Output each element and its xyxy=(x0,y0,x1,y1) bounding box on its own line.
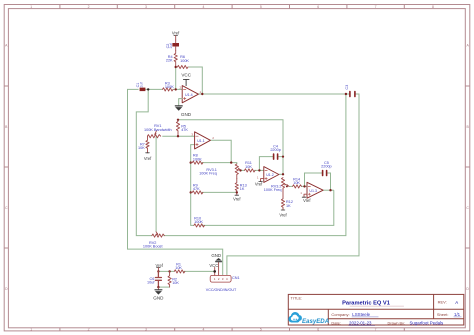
junction C4 right / band vertical xyxy=(282,156,284,158)
junction U1.1 out / R8 row xyxy=(230,161,232,163)
Vref below R12 xyxy=(279,210,287,218)
svg-text:U1.2: U1.2 xyxy=(266,173,274,177)
wire: U1.3 feedback loop up through C5 xyxy=(305,173,331,190)
potentiometer RV3.2 xyxy=(264,178,289,193)
svg-text:A: A xyxy=(455,300,458,305)
svg-text:U1.3: U1.3 xyxy=(309,189,317,193)
svg-text:1: 1 xyxy=(30,328,32,332)
resistor R10 xyxy=(194,216,205,227)
svg-text:22K: 22K xyxy=(166,59,173,63)
svg-text:100K Freq: 100K Freq xyxy=(199,172,217,176)
junction R11 right / U1.2 minus xyxy=(258,169,260,171)
resistor R11 xyxy=(245,161,256,172)
junction R4/R6 node xyxy=(175,66,177,68)
capacitor C6 xyxy=(147,271,161,287)
wire: junction after C1 jog down to RV2 left xyxy=(136,89,152,235)
wire: RV1 wiper down to RV2 wiper xyxy=(155,137,157,232)
svg-text:4: 4 xyxy=(202,328,204,332)
resistor R4 xyxy=(166,51,177,68)
potentiometer RV3.1 xyxy=(199,164,242,179)
svg-text:LSSteele: LSSteele xyxy=(352,312,370,317)
capacitor C5 xyxy=(321,161,332,176)
resistor R7 xyxy=(138,136,149,153)
op-amp U1.2 xyxy=(257,167,279,183)
wire: C1 to R3 to U1.4 pin2 xyxy=(145,88,182,90)
svg-text:100K Freq: 100K Freq xyxy=(264,188,282,192)
svg-text:47K: 47K xyxy=(193,187,200,191)
WIRES (green) xyxy=(128,67,360,287)
svg-text:Vref: Vref xyxy=(156,263,164,268)
ground at CN1 pin2 xyxy=(211,253,222,262)
wire: U1.3 out right xyxy=(323,189,334,191)
svg-text:100K: 100K xyxy=(193,157,202,161)
svg-text:Drawn By:: Drawn By: xyxy=(388,321,406,325)
wire: R2 bottom to C6 bottom GND node xyxy=(158,286,169,288)
svg-text:Sugarfoot Pedals: Sugarfoot Pedals xyxy=(410,321,444,326)
svg-text:REV:: REV: xyxy=(438,300,447,305)
resistor R5 xyxy=(176,120,188,136)
svg-text:10K: 10K xyxy=(293,181,300,185)
svg-text:VCC: VCC xyxy=(209,263,218,268)
Vref net label top xyxy=(172,31,180,40)
junction after C1 xyxy=(147,88,149,90)
resistor R9 xyxy=(190,183,203,194)
svg-text:1: 1 xyxy=(30,5,32,9)
svg-text:5: 5 xyxy=(260,5,262,9)
svg-text:7: 7 xyxy=(375,5,377,9)
wire: C3 right lead down the right side to CN1 pin4 (OUT) xyxy=(227,94,359,275)
wire: U1.2 out to RV3.2 top xyxy=(279,173,283,175)
TITLE BLOCK xyxy=(288,294,464,325)
svg-text:C3: C3 xyxy=(345,85,349,90)
svg-text:Vref: Vref xyxy=(303,198,311,203)
junction R4 to pin2 wire xyxy=(175,88,177,90)
wire: band node row R5 top to U1.2 out vertical xyxy=(178,120,283,175)
svg-text:10K: 10K xyxy=(175,266,182,270)
svg-text:GND: GND xyxy=(211,253,221,258)
svg-text:1/1: 1/1 xyxy=(454,312,461,317)
capacitor C3 xyxy=(345,85,355,97)
wire: Vref divider row R1 to CN1 pin1 xyxy=(158,270,214,272)
ground at U1.4 plus input xyxy=(175,99,192,118)
svg-text:100K Bandwidth: 100K Bandwidth xyxy=(144,128,172,132)
junction U1.4 output / R6 feedback xyxy=(201,93,203,95)
op-amp U1.1 xyxy=(191,132,214,149)
wire: R11 right to U1.2 minus junction xyxy=(254,169,264,171)
Vref below R13 xyxy=(233,195,241,201)
svg-text:10K: 10K xyxy=(172,281,179,285)
resistor R13 xyxy=(235,179,247,196)
connector CN1 xyxy=(206,262,240,292)
EasyEDA logo xyxy=(288,312,329,325)
resistor R2 xyxy=(168,271,179,287)
svg-text:100K: 100K xyxy=(194,220,203,224)
junction R9/R13 node xyxy=(236,191,238,193)
svg-text:7: 7 xyxy=(375,328,377,332)
svg-text:5: 5 xyxy=(260,328,262,332)
capacitor C4 xyxy=(270,144,281,159)
VCC symbol at U1.4 xyxy=(181,73,191,86)
junction C6 bottom / R2 xyxy=(157,286,159,288)
svg-text:U1.1: U1.1 xyxy=(197,139,205,143)
capacitor C1 xyxy=(136,81,145,91)
svg-text:10K: 10K xyxy=(138,146,145,150)
Vref at U1.3 plus input xyxy=(302,194,311,203)
svg-text:VCC: VCC xyxy=(181,73,191,78)
junction output row / C3 left xyxy=(345,93,347,95)
wire: RV1 right to R5 bottom to U1.1 minus xyxy=(162,135,194,137)
wire: U1.4 out down to RV2 right xyxy=(163,94,346,236)
resistor R1 xyxy=(174,262,185,273)
svg-text:10K: 10K xyxy=(245,165,252,169)
wire: input net from CN1 pin3 up left side to C1 xyxy=(128,89,223,275)
svg-text:EasyEDA: EasyEDA xyxy=(302,318,329,325)
Vref at divider xyxy=(156,263,164,273)
svg-text:8: 8 xyxy=(432,5,434,9)
svg-text:1K: 1K xyxy=(286,204,291,208)
svg-text:6: 6 xyxy=(317,328,319,332)
potentiometer RV2 xyxy=(143,232,165,249)
wire: U1.1 output right and down to R8 row xyxy=(210,140,231,162)
wire: R8 right to RV3.1 top xyxy=(202,163,237,164)
ground below C6 xyxy=(153,287,164,300)
svg-text:Company:: Company: xyxy=(331,312,349,317)
svg-text:U1.4: U1.4 xyxy=(185,93,193,97)
svg-text:Vref: Vref xyxy=(172,31,180,36)
wire: RV3.2 wiper to R14 xyxy=(289,185,293,187)
wire: RV3.1 wiper to R11 left xyxy=(241,169,245,171)
wire: R14 right to U1.3 minus xyxy=(301,185,307,187)
svg-text:47K: 47K xyxy=(181,128,188,132)
wire: R9 right to R13 bottom node xyxy=(202,191,237,193)
svg-text:2: 2 xyxy=(88,5,90,9)
resistor R3 xyxy=(163,82,175,92)
svg-text:3: 3 xyxy=(145,328,147,332)
resistor R14 xyxy=(293,177,302,188)
potentiometer RV1 xyxy=(144,124,172,138)
svg-text:100K Boost: 100K Boost xyxy=(143,245,164,249)
junction U1.3 out xyxy=(329,189,331,191)
wire: R6 right to U1.4 output (feedback) xyxy=(189,67,203,94)
svg-text:CN1: CN1 xyxy=(232,276,240,280)
resistor R6 xyxy=(177,55,189,69)
svg-text:Date:: Date: xyxy=(331,321,341,326)
junction R2 top xyxy=(168,270,170,272)
junction R5 bottom xyxy=(177,135,179,137)
svg-text:Vref: Vref xyxy=(144,156,152,161)
svg-text:4: 4 xyxy=(202,5,204,9)
svg-text:2022-01-23: 2022-01-23 xyxy=(349,321,372,326)
svg-text:Parametric EQ V1: Parametric EQ V1 xyxy=(342,301,390,307)
resistor R8 xyxy=(190,154,203,165)
op-amp U1.3 xyxy=(300,182,323,198)
svg-text:10uf: 10uf xyxy=(147,281,155,285)
svg-text:Sheet:: Sheet: xyxy=(437,312,449,317)
junction U1.2 out xyxy=(282,173,284,175)
svg-text:3: 3 xyxy=(145,5,147,9)
svg-text:2200p: 2200p xyxy=(270,148,281,152)
svg-text:100K: 100K xyxy=(180,59,189,63)
op-amp U1.4 xyxy=(180,86,202,103)
svg-text:6: 6 xyxy=(317,5,319,9)
wire: U1.4 output row to C3 xyxy=(198,93,350,95)
VCC net label at CN1 pin1 xyxy=(209,263,218,273)
wire: U1.3 out down to R10 row xyxy=(202,190,334,225)
Vref below R7 xyxy=(144,153,152,161)
wire: U1.1 plus down through R8 R9 to R10 xyxy=(191,145,195,226)
svg-text:TITLE:: TITLE: xyxy=(291,296,303,301)
junction band row R5 xyxy=(177,119,179,121)
Vref at U1.2 plus input xyxy=(255,179,264,187)
svg-text:Vref: Vref xyxy=(233,196,241,201)
wire: R4 node down to pin2 wire xyxy=(175,67,177,89)
wire: U1.2 feedback loop up through C4 xyxy=(259,157,283,171)
svg-text:1K: 1K xyxy=(240,187,245,191)
svg-text:Vref: Vref xyxy=(279,213,287,218)
svg-text:100K: 100K xyxy=(165,85,174,89)
capacitor C2 xyxy=(166,40,179,51)
junction R14 / C5 loop xyxy=(303,185,305,187)
svg-text:VCC/GND/IN/OUT: VCC/GND/IN/OUT xyxy=(206,288,237,292)
resistor R12 xyxy=(281,189,293,210)
svg-text:2200p: 2200p xyxy=(321,165,332,169)
svg-text:GND: GND xyxy=(153,295,164,300)
svg-text:Vref: Vref xyxy=(255,182,263,187)
svg-text:2: 2 xyxy=(88,328,90,332)
svg-text:GND: GND xyxy=(181,112,192,117)
